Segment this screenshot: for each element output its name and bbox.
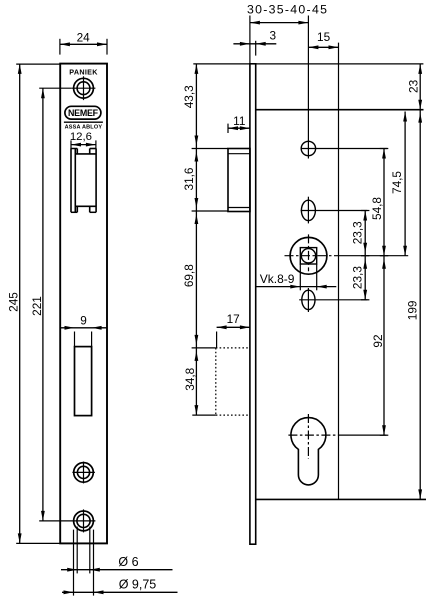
- dimension 199 line: [418, 110, 422, 500]
- deadbolt slot: [75, 347, 92, 416]
- dimension 221 text: [30, 296, 44, 316]
- Vk.8-9 text: [260, 272, 295, 286]
- case inner vertical line: [338, 43, 340, 500]
- svg-text:43,3: 43,3: [182, 85, 196, 108]
- dimension 9 line with arrows: [60, 326, 107, 347]
- case slot hole lower: [299, 288, 367, 312]
- dimension 23 text: [406, 79, 420, 93]
- svg-text:Ø 6: Ø 6: [118, 555, 138, 569]
- dimension 12,6 line with arrows: [71, 140, 96, 149]
- dimension 11 line: [228, 124, 250, 133]
- lock case top edge: [256, 109, 424, 111]
- svg-text:69,8: 69,8: [182, 264, 196, 287]
- dimension 92 line: [380, 256, 389, 436]
- top screw hole: [72, 76, 96, 100]
- case slot hole upper: [301, 197, 368, 224]
- dimension 3 text: [270, 29, 277, 43]
- dimension 43,3 text: [182, 85, 196, 108]
- svg-text:PANIEK: PANIEK: [69, 68, 98, 77]
- dimension 69,8 text: [182, 264, 196, 287]
- svg-text:74,5: 74,5: [390, 171, 404, 194]
- svg-text:NEMEF: NEMEF: [68, 108, 99, 118]
- dimension 54,8 text: [370, 197, 384, 220]
- svg-text:221: 221: [30, 296, 44, 316]
- diameter 6 extension lines: [77, 527, 90, 574]
- svg-text:15: 15: [317, 30, 331, 44]
- dimension 30-35-40-45 text: [247, 3, 328, 17]
- dimension 54,8 line: [380, 149, 389, 256]
- middle screw hole: [72, 462, 95, 484]
- dimension 92 text: [371, 334, 385, 347]
- svg-text:Vk.8-9: Vk.8-9: [260, 272, 295, 286]
- dimension 34,8 text: [183, 367, 197, 390]
- lock case bottom edge: [256, 498, 426, 500]
- ASSA ABLOY text: [65, 125, 103, 131]
- dimension 245 line with arrows: [16, 64, 60, 544]
- follower square extension lines: [300, 264, 316, 290]
- dimension 15 text: [317, 30, 331, 44]
- diameter 6 text: [118, 555, 138, 569]
- diameter 6 dimension line: [61, 568, 173, 572]
- euro cylinder center lines: [288, 414, 386, 459]
- dimension 221 line with arrows: [41, 88, 45, 521]
- vertical center line: [307, 16, 309, 140]
- latch bolt side view: [228, 149, 250, 212]
- faceplate extension line top: [249, 16, 251, 64]
- line under NEMEF logo: [64, 121, 103, 123]
- dimension 23,3 upper text: [351, 221, 365, 244]
- dimension 30-35-40-45 line: [250, 21, 309, 25]
- dimension 24 text: [77, 31, 91, 45]
- dimension 23 line: [418, 64, 422, 110]
- dimension 24 line with arrows: [60, 39, 107, 55]
- deadbolt thrown dotted outline: [216, 348, 250, 415]
- dimension 74,5 text: [390, 171, 404, 194]
- extension line faceplate top: [193, 63, 423, 65]
- dimension 31,6 text: [182, 167, 196, 190]
- dimension 23,3 chain line: [361, 211, 369, 300]
- case hole top: [301, 139, 388, 159]
- svg-text:ASSA ABLOY: ASSA ABLOY: [65, 125, 103, 131]
- faceplate edge view: [250, 64, 256, 544]
- svg-text:31,6: 31,6: [182, 167, 196, 190]
- svg-text:23,3: 23,3: [351, 266, 365, 289]
- euro cylinder hole: [291, 418, 326, 485]
- svg-text:92: 92: [371, 334, 385, 347]
- svg-text:3: 3: [270, 29, 277, 43]
- dimension 17 line: [217, 325, 250, 348]
- NEMEF logo text: [68, 108, 99, 118]
- svg-text:23: 23: [406, 79, 420, 93]
- dimension 15 line: [308, 45, 338, 49]
- latch bolt front view: [71, 149, 96, 213]
- svg-text:245: 245: [7, 292, 21, 312]
- svg-text:34,8: 34,8: [183, 367, 197, 390]
- svg-text:17: 17: [227, 312, 240, 326]
- dimension 9 text: [80, 313, 87, 327]
- faceplate front view outline: [60, 64, 107, 544]
- bottom screw hole: [39, 509, 95, 532]
- dimension 199 text: [406, 301, 420, 321]
- dimension 11 text: [233, 114, 245, 128]
- svg-text:11: 11: [233, 114, 245, 128]
- svg-text:Ø 9,75: Ø 9,75: [119, 578, 157, 592]
- dimension 3 line: [233, 41, 276, 56]
- left dimension chain line 43,3 31,6 69,8 34,8: [192, 64, 228, 415]
- dimension 12,6 text: [70, 131, 92, 143]
- PANIEK label: [69, 68, 98, 77]
- follower center lines: [285, 234, 409, 271]
- Vk.8-9 dimension line: [257, 285, 337, 289]
- svg-text:23,3: 23,3: [351, 221, 365, 244]
- dimension 74,5 line: [403, 112, 407, 256]
- svg-text:9: 9: [80, 313, 87, 327]
- dimension 245 text: [7, 292, 21, 312]
- diameter 9,75 dimension line: [62, 590, 178, 594]
- dimension 23,3 lower text: [351, 266, 365, 289]
- follower square hole: [290, 237, 327, 274]
- svg-text:199: 199: [406, 301, 420, 321]
- dimension 17 text: [227, 312, 240, 326]
- diameter 9,75 text: [119, 578, 157, 592]
- extension line from 221 to top hole: [39, 87, 71, 89]
- svg-text:54,8: 54,8: [370, 197, 384, 220]
- svg-text:12,6: 12,6: [70, 131, 92, 143]
- NEMEF logo oval: [65, 106, 101, 119]
- svg-text:24: 24: [77, 31, 91, 45]
- svg-text:30-35-40-45: 30-35-40-45: [247, 3, 328, 17]
- diameter 9,75 extension lines: [74, 530, 94, 596]
